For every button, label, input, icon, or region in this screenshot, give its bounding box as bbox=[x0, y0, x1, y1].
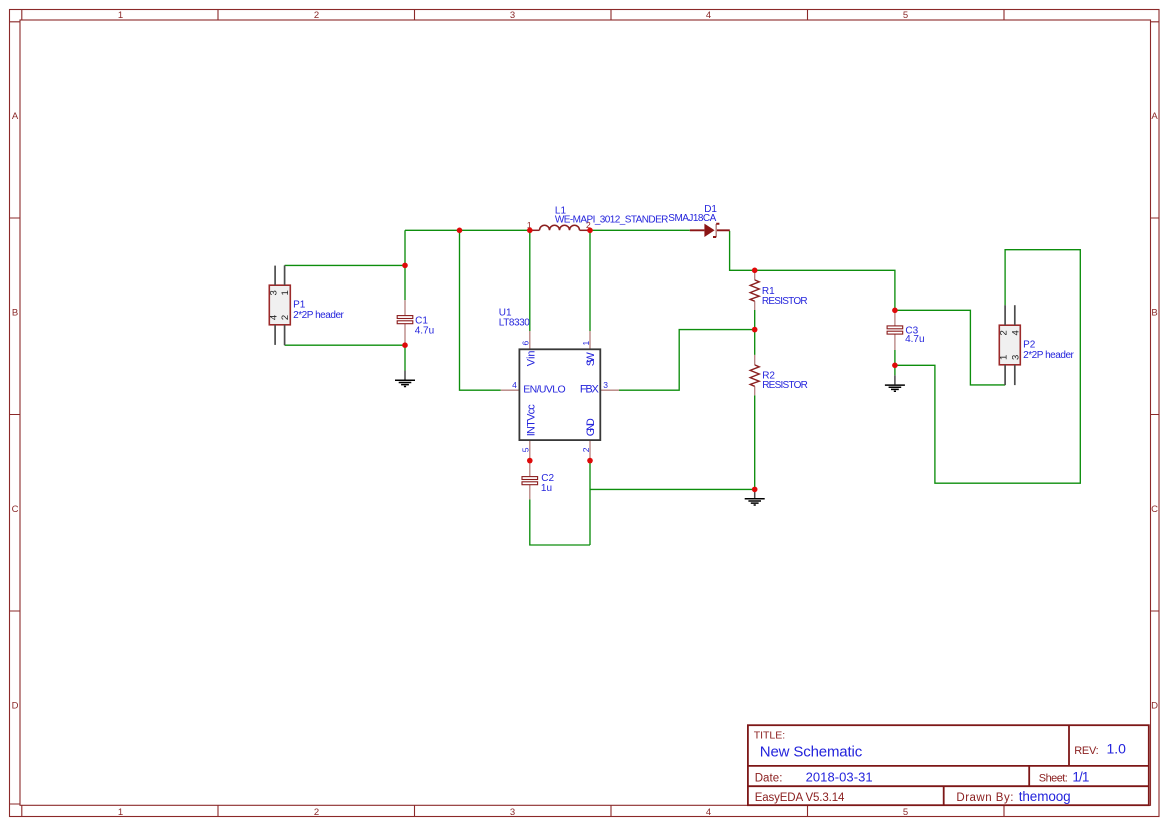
svg-text:Sheet:: Sheet: bbox=[1039, 772, 1068, 784]
svg-text:1: 1 bbox=[118, 10, 123, 21]
wire Vin branch bbox=[529, 230, 531, 331]
svg-text:FBX: FBX bbox=[580, 384, 600, 396]
svg-text:C: C bbox=[12, 504, 19, 515]
svg-text:2: 2 bbox=[999, 330, 1010, 335]
svg-text:2018-03-31: 2018-03-31 bbox=[806, 769, 873, 784]
svg-text:1: 1 bbox=[581, 341, 591, 346]
svg-text:3: 3 bbox=[603, 380, 608, 390]
P2 labels bbox=[1023, 340, 1074, 361]
svg-text:2: 2 bbox=[314, 10, 319, 21]
pin lead U1 EN/UVLO bbox=[501, 389, 520, 391]
wire top rail left bbox=[405, 229, 530, 231]
R1 labels bbox=[762, 286, 808, 307]
svg-text:SMAJ18CA: SMAJ18CA bbox=[668, 213, 716, 224]
svg-text:1: 1 bbox=[280, 290, 291, 295]
svg-text:5: 5 bbox=[903, 10, 908, 21]
svg-text:1: 1 bbox=[999, 355, 1010, 360]
P2 pin 3 stub bbox=[1014, 365, 1016, 385]
svg-text:LT8330: LT8330 bbox=[499, 318, 530, 329]
node C1 bottom / P1 pin2 bbox=[402, 342, 408, 348]
JUNCTION DOTS bbox=[402, 228, 898, 493]
pin lead R2 bottom bbox=[754, 386, 756, 395]
C2 labels bbox=[541, 473, 555, 494]
svg-text:GND: GND bbox=[585, 418, 597, 436]
svg-text:INTVcc: INTVcc bbox=[525, 404, 537, 437]
title block row lines bbox=[748, 766, 1149, 786]
resistor R2 bbox=[750, 365, 759, 386]
R2 labels bbox=[762, 370, 808, 391]
wire P1 pin2 to C1 bottom node bbox=[285, 344, 405, 346]
P1 pin 2 stub bbox=[284, 325, 286, 345]
P2 pin 4 stub bbox=[1014, 305, 1016, 325]
svg-text:5: 5 bbox=[903, 807, 908, 818]
svg-text:2: 2 bbox=[280, 315, 291, 320]
wire D1 cathode to R1 and C3 bbox=[730, 231, 895, 310]
node L1 pin2 / SW bbox=[587, 228, 593, 234]
wire C3 bottom stub down bbox=[894, 365, 896, 375]
node C1 top / P1 pin1 bbox=[402, 263, 408, 269]
svg-text:A: A bbox=[1151, 111, 1158, 122]
node L1 pin1 / Vin bbox=[527, 228, 533, 234]
svg-text:2*2P header: 2*2P header bbox=[1023, 350, 1074, 361]
L1 pin numbers bbox=[527, 220, 591, 230]
border column ticks top bbox=[22, 10, 1004, 21]
pin lead C1 top bbox=[404, 300, 406, 315]
C1 labels bbox=[415, 315, 434, 336]
U1 labels bbox=[499, 307, 530, 328]
svg-text:4.7u: 4.7u bbox=[905, 334, 924, 345]
capacitor C2 bbox=[522, 477, 538, 485]
wire R2 gnd node stub bbox=[754, 489, 756, 491]
pin lead R2 top bbox=[754, 355, 756, 365]
op-amp U1 body bbox=[519, 349, 600, 440]
wire C3 bottom green bbox=[894, 350, 896, 365]
pin lead R1 top bbox=[754, 270, 756, 280]
svg-text:Date:: Date: bbox=[755, 772, 783, 784]
wire FBX to divider bbox=[619, 330, 755, 391]
wire C1 column top bbox=[404, 230, 406, 300]
pin lead R1 bottom bbox=[754, 301, 756, 310]
border column ticks bottom bbox=[22, 805, 1004, 816]
svg-text:1: 1 bbox=[118, 807, 123, 818]
pin lead U1 SW bbox=[589, 331, 591, 349]
svg-text:2: 2 bbox=[314, 807, 319, 818]
svg-text:3: 3 bbox=[510, 807, 515, 818]
P2 pin 1 stub bbox=[1004, 365, 1006, 385]
svg-text:5: 5 bbox=[521, 447, 531, 452]
wire top rail right bbox=[590, 229, 690, 231]
svg-text:Drawn By:: Drawn By: bbox=[956, 792, 1013, 804]
border row ticks left bbox=[10, 22, 21, 804]
inductor L1 bbox=[530, 225, 590, 230]
svg-text:4: 4 bbox=[1010, 330, 1021, 335]
node R1/R2 mid FBX bbox=[752, 327, 758, 333]
TITLE BLOCK bbox=[748, 725, 1149, 805]
svg-text:6: 6 bbox=[521, 341, 531, 346]
D1 labels bbox=[668, 204, 717, 224]
svg-text:4: 4 bbox=[706, 10, 711, 21]
pin lead C3 bottom bbox=[894, 334, 896, 350]
U1 pin numbers bbox=[512, 341, 608, 453]
svg-text:Vin: Vin bbox=[525, 350, 537, 366]
wire C3 top to P2 pin1 bbox=[895, 310, 1005, 385]
svg-text:1/1: 1/1 bbox=[1072, 769, 1089, 784]
title block cell dividers bbox=[944, 725, 1069, 805]
wire EN/UVLO branch bbox=[460, 230, 501, 390]
header P2 bbox=[999, 325, 1020, 365]
border row ticks right bbox=[1151, 22, 1160, 611]
svg-text:WE-MAPI_3012_STANDER: WE-MAPI_3012_STANDER bbox=[555, 215, 669, 226]
wire SW branch bbox=[589, 230, 591, 331]
C3 labels bbox=[905, 325, 924, 345]
capacitor C1 bbox=[397, 316, 413, 324]
title block outline bbox=[748, 725, 1149, 805]
node R1 top bbox=[752, 268, 758, 274]
node INTVcc / C2 bbox=[527, 458, 533, 464]
svg-text:1.0: 1.0 bbox=[1107, 741, 1127, 757]
svg-text:D: D bbox=[12, 700, 19, 711]
wire C2 bottom loop bbox=[530, 499, 590, 545]
resistor R1 bbox=[750, 280, 759, 301]
svg-text:REV:: REV: bbox=[1074, 745, 1099, 757]
ground under C1 bbox=[395, 371, 415, 387]
svg-text:C: C bbox=[1151, 504, 1158, 515]
svg-text:B: B bbox=[1151, 307, 1157, 318]
wire C1 bottom to ground bbox=[404, 345, 406, 371]
svg-text:A: A bbox=[12, 111, 19, 122]
ground under R2 bbox=[745, 492, 765, 506]
svg-text:4.7u: 4.7u bbox=[415, 325, 434, 336]
U1 pin names bbox=[523, 350, 599, 436]
svg-text:RESISTOR: RESISTOR bbox=[762, 380, 808, 391]
svg-text:B: B bbox=[12, 307, 18, 318]
svg-text:3: 3 bbox=[510, 10, 515, 21]
P1 pin 1 stub bbox=[284, 265, 286, 285]
pin lead C2 bottom bbox=[529, 485, 531, 500]
wire R1 bottom to mid node bbox=[754, 310, 756, 330]
PIN LEADS (pale) bbox=[405, 270, 895, 499]
svg-text:1u: 1u bbox=[541, 483, 552, 494]
wire mid node to R2 top bbox=[754, 330, 756, 355]
svg-text:New Schematic: New Schematic bbox=[760, 743, 863, 760]
node C3 bottom bbox=[892, 363, 898, 369]
node GND pin bbox=[587, 458, 593, 464]
svg-text:4: 4 bbox=[512, 380, 517, 390]
wire GND net to ground bbox=[590, 488, 755, 490]
svg-text:themoog: themoog bbox=[1019, 789, 1071, 804]
node R2 bottom ground bbox=[752, 487, 758, 493]
wire P1 pin1 to C1 node bbox=[285, 264, 405, 266]
diode D1 bbox=[690, 224, 730, 237]
svg-text:2*2P header: 2*2P header bbox=[293, 310, 344, 321]
wire GND pin down bbox=[589, 461, 591, 545]
P1 pin numbers bbox=[269, 290, 292, 320]
svg-text:D: D bbox=[1151, 700, 1158, 711]
P1 pin 4 stub bbox=[274, 325, 276, 345]
svg-text:3: 3 bbox=[1010, 355, 1021, 360]
capacitor C3 bbox=[887, 326, 903, 334]
svg-text:RESISTOR: RESISTOR bbox=[762, 296, 808, 307]
pin lead C2 top bbox=[529, 461, 531, 477]
P2 pin numbers bbox=[999, 330, 1022, 360]
svg-text:SW: SW bbox=[585, 352, 597, 367]
node EN branch on top rail bbox=[457, 228, 463, 234]
svg-text:EasyEDA V5.3.14: EasyEDA V5.3.14 bbox=[755, 792, 845, 804]
svg-text:4: 4 bbox=[269, 315, 280, 320]
svg-text:EN/UVLO: EN/UVLO bbox=[523, 384, 566, 396]
svg-text:2: 2 bbox=[581, 447, 591, 452]
header P1 bbox=[269, 285, 290, 325]
pin lead U1 GND bbox=[589, 440, 591, 461]
P2 pin 2 stub bbox=[1004, 305, 1006, 325]
P1 labels bbox=[293, 300, 344, 321]
svg-text:3: 3 bbox=[269, 290, 280, 295]
pin lead U1 INTVcc bbox=[529, 440, 531, 461]
wire R2 bottom to gnd node bbox=[754, 395, 756, 489]
svg-text:TITLE:: TITLE: bbox=[754, 729, 786, 741]
node C3 top bbox=[892, 308, 898, 314]
pin lead U1 FBX bbox=[600, 389, 619, 391]
svg-text:4: 4 bbox=[706, 807, 711, 818]
pin lead U1 Vin bbox=[529, 331, 531, 349]
pin lead C3 top bbox=[894, 310, 896, 326]
P1 pin 3 stub bbox=[274, 266, 276, 286]
ground under C3 bbox=[885, 375, 905, 391]
wire C3 bottom to right loop bbox=[895, 250, 1080, 484]
L1 labels bbox=[555, 206, 669, 226]
pin lead C1 bottom bbox=[404, 324, 406, 346]
